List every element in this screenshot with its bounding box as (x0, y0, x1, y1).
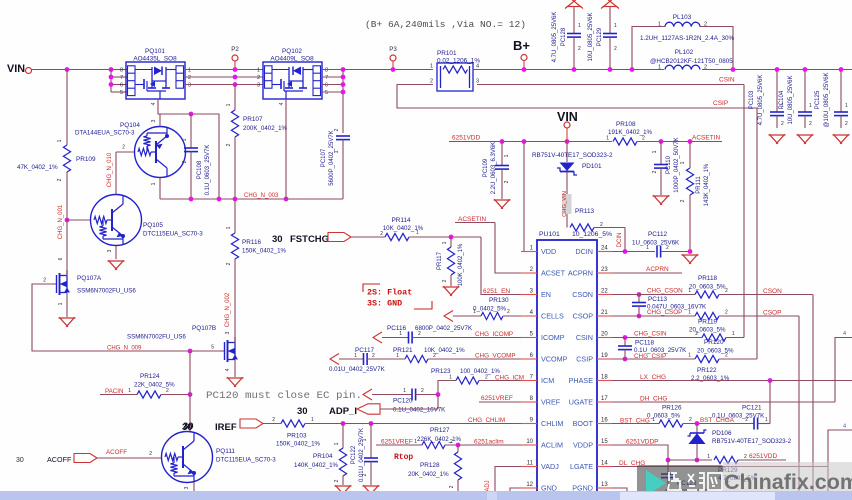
svg-text:PC128: PC128 (561, 27, 567, 46)
svg-text:150K_0402_1%: 150K_0402_1% (276, 441, 321, 448)
transistor PQ105 DTC115EUA_SC70-3 (91, 195, 142, 246)
svg-text:PC118: PC118 (635, 340, 655, 347)
svg-text:8: 8 (325, 68, 328, 74)
svg-text:2: 2 (689, 417, 692, 423)
svg-text:PL102: PL102 (675, 49, 694, 56)
svg-text:1: 1 (809, 103, 812, 109)
wire PR101 pin3 CSIN (477, 84, 744, 86)
svg-text:5: 5 (325, 90, 328, 96)
svg-text:20_0603_5%: 20_0603_5% (689, 284, 726, 291)
capacitor PC110 1000P_0402_50V7K (660, 142, 662, 165)
svg-text:1: 1 (128, 388, 131, 394)
svg-text:CSIN: CSIN (719, 77, 735, 84)
svg-text:1: 1 (226, 103, 232, 106)
svg-text:1: 1 (688, 353, 691, 359)
svg-text:CHG_VIN: CHG_VIN (562, 191, 568, 217)
transistor PQ101 AO4435L_SO8 (126, 62, 185, 99)
wire PQ101 left pin bus (110, 70, 112, 93)
svg-text:PC122: PC122 (351, 445, 357, 464)
svg-text:PQ102: PQ102 (282, 48, 302, 55)
wire CHG_N_001 to PQ107A drain (66, 220, 68, 256)
svg-text:6800P_0402_25V7K: 6800P_0402_25V7K (415, 325, 473, 332)
svg-text:1: 1 (151, 182, 157, 185)
svg-text:UGATE: UGATE (569, 397, 593, 406)
diode PD106 RB751V-40TE17_SOD323-2 (696, 424, 698, 461)
svg-text:DTC115EUA_SC70-3: DTC115EUA_SC70-3 (216, 457, 276, 464)
svg-text:FSTCHG: FSTCHG (290, 234, 329, 245)
svg-text:23: 23 (601, 267, 608, 273)
wire ACOFF to PQ111 base (97, 457, 161, 459)
svg-text:LGATE: LGATE (570, 462, 593, 471)
svg-text:5: 5 (211, 345, 214, 351)
capacitor PC118 0.1U_0603_25V7K (624, 338, 626, 347)
svg-text:2S: Float: 2S: Float (367, 288, 412, 298)
svg-text:CHG_N_009: CHG_N_009 (107, 346, 142, 352)
svg-text:1: 1 (57, 139, 63, 142)
svg-text:ACSET: ACSET (541, 268, 566, 277)
row CSON: PR118 20_0603_5% (637, 292, 642, 297)
svg-text:2: 2 (666, 245, 669, 251)
capacitor PC109 2.2U_0603_6.3V6K (501, 142, 503, 166)
svg-text:VIN: VIN (7, 63, 25, 75)
svg-text:CHG_CSOP: CHG_CSOP (647, 309, 682, 316)
wire FSTCHG to PR114 (351, 236, 385, 238)
svg-text:CHG_N_010: CHG_N_010 (107, 152, 113, 187)
wire GND pin12 (510, 488, 521, 491)
svg-text:PR130: PR130 (489, 297, 509, 304)
svg-text:30: 30 (16, 457, 24, 464)
svg-text:BOOT: BOOT (573, 419, 594, 428)
svg-text:2: 2 (380, 231, 383, 237)
transistor PQ107B SSM6N7002FU_US6 (220, 350, 225, 352)
svg-text:100K_0402_1%: 100K_0402_1% (458, 243, 464, 286)
capacitor PC125 @10U_0805_25V6K (840, 70, 842, 113)
svg-text:CHG_ICM: CHG_ICM (495, 375, 524, 382)
capacitor PC113 0.047U_0603_16V7K (638, 295, 640, 303)
svg-text:PC116: PC116 (387, 325, 407, 332)
svg-text:4: 4 (151, 102, 157, 105)
svg-text:10K_0402_1%: 10K_0402_1% (424, 347, 465, 354)
svg-text:2: 2 (57, 178, 63, 181)
svg-text:22K_0402_5%: 22K_0402_5% (134, 382, 175, 389)
svg-text:CSIN: CSIN (576, 333, 593, 342)
wire CSOP down right (798, 316, 800, 500)
svg-text:1: 1 (414, 439, 417, 445)
svg-text:PC108: PC108 (197, 160, 203, 179)
svg-text:2: 2 (485, 375, 488, 381)
svg-text:@10U_0805_25V6K: @10U_0805_25V6K (824, 72, 830, 127)
svg-text:1: 1 (354, 353, 357, 359)
svg-text:6251VREF: 6251VREF (481, 395, 513, 402)
wire PQ111 emitter down (193, 482, 195, 491)
wire PQ104 base to PQ105 collector CHG_N_010 (116, 151, 134, 153)
svg-text:PR101: PR101 (437, 50, 457, 57)
wire FSTCHG row down to EN pin (481, 237, 537, 295)
svg-text:1: 1 (449, 375, 452, 381)
wire LX to PC121 (769, 381, 771, 424)
svg-text:1: 1 (606, 136, 609, 142)
svg-text:6: 6 (58, 257, 64, 260)
row PGND (612, 488, 627, 491)
svg-text:GND: GND (541, 483, 557, 492)
svg-text:17: 17 (601, 396, 608, 402)
capacitor PC123 4.7U_0805_6.3V6K (661, 473, 675, 475)
svg-text:14: 14 (601, 461, 608, 467)
svg-text:2: 2 (418, 331, 421, 337)
svg-text:PR118: PR118 (698, 275, 718, 282)
svg-text:2: 2 (362, 473, 368, 476)
svg-text:B+: B+ (513, 38, 530, 53)
svg-text:2: 2 (680, 199, 686, 202)
svg-text:CHG_ICOMP: CHG_ICOMP (475, 331, 513, 338)
capacitor PC128 4.7U_0805_25V6K (565, 0, 576, 8)
wire PQ107A drain (66, 256, 68, 276)
svg-text:PR111: PR111 (696, 176, 702, 194)
transistor PQ111 DTC115EUA_SC70-3 (162, 432, 213, 483)
svg-text:PR127: PR127 (430, 427, 450, 434)
wire DH to FET gate stub (835, 338, 852, 403)
svg-text:PGND: PGND (572, 483, 593, 492)
svg-text:2: 2 (122, 145, 125, 151)
wire PQ107B drain (234, 336, 236, 343)
svg-text:4.7U_0805_25V6K: 4.7U_0805_25V6K (758, 75, 764, 126)
svg-text:PC120: PC120 (393, 398, 413, 405)
svg-text:2: 2 (642, 136, 645, 142)
wire ADP_I stub (380, 408, 438, 410)
wire PQ104 emitter down (159, 178, 161, 199)
svg-text:PR108: PR108 (616, 121, 636, 128)
svg-text:PR113: PR113 (575, 208, 595, 215)
resistor PR129 4.7_0603_5% (667, 460, 669, 474)
svg-text:CSIP: CSIP (576, 354, 593, 363)
wire PQ107A source to ground (66, 293, 68, 317)
svg-text:CSOP: CSOP (763, 310, 781, 317)
svg-text:2: 2 (334, 128, 340, 131)
svg-text:BST_CHGA: BST_CHGA (700, 417, 735, 424)
svg-text:3S: GND: 3S: GND (367, 299, 402, 309)
svg-text:RB751V-40TE17_SOD323-2: RB751V-40TE17_SOD323-2 (712, 438, 792, 445)
wire CSIN vertical (743, 85, 745, 338)
resistor PR111 143K_0402_1% (689, 142, 691, 169)
wire PQ101 to PQ102 rows 1-2-3 (185, 69, 263, 71)
svg-text:10_1206_5%: 10_1206_5% (572, 231, 612, 238)
svg-text:CHLIM: CHLIM (541, 419, 563, 428)
svg-text:PD101: PD101 (582, 163, 602, 170)
svg-text:SSM6N7002FU_US6: SSM6N7002FU_US6 (127, 334, 186, 341)
svg-text:IREF: IREF (215, 422, 237, 433)
svg-text:20: 20 (601, 332, 608, 338)
svg-text:1: 1 (58, 302, 64, 305)
svg-text:PR104: PR104 (313, 453, 333, 460)
capacitor PC129 10U_0805_25V6K (601, 0, 612, 8)
svg-text:2: 2 (504, 180, 510, 183)
svg-text:2: 2 (704, 22, 707, 28)
svg-text:ACOFF: ACOFF (47, 455, 72, 464)
svg-text:2: 2 (725, 288, 728, 294)
svg-text:2: 2 (578, 46, 581, 52)
svg-text:2: 2 (226, 262, 232, 265)
svg-text:Rtop: Rtop (394, 453, 413, 462)
svg-text:ACPRN: ACPRN (646, 266, 669, 273)
svg-text:PC113: PC113 (648, 296, 668, 303)
svg-text:5: 5 (120, 90, 123, 96)
svg-text:VDDP: VDDP (573, 440, 593, 449)
svg-text:2: 2 (433, 353, 436, 359)
svg-text:13: 13 (601, 482, 608, 488)
svg-text:24: 24 (601, 246, 608, 252)
svg-text:1: 1 (652, 417, 655, 423)
svg-text:PQ111: PQ111 (216, 448, 235, 455)
svg-text:2: 2 (695, 331, 698, 337)
svg-text:2: 2 (725, 310, 728, 316)
wire VIN to PQ101 (31, 69, 126, 71)
svg-text:20_0603_5%: 20_0603_5% (697, 348, 734, 355)
svg-text:DCIN: DCIN (575, 247, 593, 256)
svg-text:4: 4 (225, 368, 231, 371)
svg-text:PL103: PL103 (673, 14, 692, 21)
svg-text:1: 1 (396, 353, 399, 359)
svg-text:PC110: PC110 (666, 155, 672, 174)
svg-text:22: 22 (601, 289, 608, 295)
svg-text:150K_0402_1%: 150K_0402_1% (242, 248, 287, 255)
svg-text:6: 6 (325, 83, 328, 89)
svg-text:ADJ: ADJ (485, 480, 491, 491)
svg-text:2: 2 (745, 417, 748, 423)
svg-text:PR116: PR116 (242, 239, 262, 246)
svg-text:PD106: PD106 (712, 430, 732, 437)
svg-text:PR114: PR114 (391, 217, 411, 224)
inductor PL103 1.2UH_1127AS-1R2N_2.4A_30% (632, 27, 665, 70)
svg-text:AO4409L_SO8: AO4409L_SO8 (270, 56, 314, 63)
capacitor PC104 10U_0805_25V6K (804, 70, 806, 113)
wire DL to FET gate stub (828, 430, 852, 491)
svg-text:1: 1 (416, 230, 419, 236)
svg-text:ACOFF: ACOFF (106, 449, 127, 456)
svg-text:1: 1 (188, 68, 191, 74)
svg-text:ACLIM: ACLIM (541, 440, 563, 449)
svg-text:1: 1 (732, 331, 735, 337)
svg-text:1: 1 (334, 150, 340, 153)
row CSIN: PR120 20_0603_5% (623, 335, 628, 340)
wire PR113 down to DCIN (624, 228, 626, 252)
svg-text:0.01U_0402_25V7K: 0.01U_0402_25V7K (329, 366, 386, 373)
svg-text:1: 1 (334, 442, 340, 445)
svg-text:RB751V-40TE17_SOD323-2: RB751V-40TE17_SOD323-2 (532, 152, 613, 159)
svg-text:PQ104: PQ104 (120, 122, 140, 129)
svg-text:4: 4 (843, 331, 846, 337)
svg-text:1: 1 (614, 23, 617, 29)
svg-text:5600P_0402_25V7K: 5600P_0402_25V7K (329, 130, 335, 185)
svg-text:143K_0402_1%: 143K_0402_1% (704, 163, 710, 206)
wire PQ107A gate to CHG_N_009 (32, 284, 223, 351)
svg-text:191K_0402_1%: 191K_0402_1% (608, 129, 653, 136)
svg-text:1: 1 (707, 454, 710, 460)
resistor PR116 150K_0402_1% (234, 199, 236, 233)
resistor PR109 47K_0402_1% (66, 70, 68, 146)
wire PQ105 emitter to ground (115, 246, 117, 259)
svg-text:PR123: PR123 (431, 368, 451, 375)
svg-text:PR122: PR122 (697, 367, 717, 374)
svg-text:2: 2 (372, 353, 375, 359)
svg-text:2: 2 (182, 160, 188, 163)
svg-text:2: 2 (614, 46, 617, 52)
svg-text:0_0402_5%: 0_0402_5% (473, 306, 507, 313)
svg-text:18: 18 (601, 375, 608, 381)
svg-text:1: 1 (442, 241, 448, 244)
svg-text:P2: P2 (231, 46, 239, 53)
svg-text:2: 2 (781, 121, 784, 127)
wire CHG_N_009 junction down to PQ111 (189, 351, 191, 431)
svg-text:@HCB2012KF-121T50_0805: @HCB2012KF-121T50_0805 (650, 58, 733, 65)
wire PD101 to PR113 CHG_VIN (566, 172, 568, 228)
svg-text:1: 1 (578, 23, 581, 29)
svg-text:10U_0805_25V6K: 10U_0805_25V6K (788, 75, 794, 124)
svg-text:2: 2 (257, 75, 260, 81)
wire CSON down right (812, 295, 814, 500)
wire P2 column down to PR107 (234, 85, 236, 111)
resistor PR107 200K_0402_1% (231, 110, 238, 137)
wire 6251VDD down to VDD pin (524, 142, 537, 252)
note 2S float 3S gnd (363, 284, 432, 309)
bottom scrollbar (0, 491, 852, 500)
svg-text:CHG_VCOMP: CHG_VCOMP (475, 353, 516, 360)
svg-text:30: 30 (182, 422, 193, 433)
svg-text:6251_EN: 6251_EN (483, 288, 510, 295)
svg-text:PR124: PR124 (140, 373, 160, 380)
svg-text:PC103: PC103 (749, 90, 755, 109)
svg-text:Chinafix.com: Chinafix.com (724, 470, 852, 494)
svg-text:4: 4 (279, 102, 285, 105)
svg-text:PHASE: PHASE (569, 376, 594, 385)
svg-text:30: 30 (272, 234, 283, 245)
svg-text:CHG_N_001: CHG_N_001 (58, 204, 64, 239)
transistor PQ107A SSM6N7002FU_US6 (52, 283, 57, 285)
svg-text:AO4435L_SO8: AO4435L_SO8 (133, 56, 177, 63)
svg-text:PC109: PC109 (483, 158, 489, 177)
svg-text:PQ105: PQ105 (143, 222, 163, 229)
capacitor PC103 4.7U_0805_25V6K (776, 70, 778, 113)
svg-text:1: 1 (257, 68, 260, 74)
svg-text:PC125: PC125 (815, 90, 821, 109)
svg-text:PQ101: PQ101 (145, 48, 165, 55)
svg-text:ICM: ICM (541, 376, 554, 385)
svg-text:EN: EN (541, 290, 551, 299)
svg-text:2: 2 (442, 279, 448, 282)
wire PR101 pin2 loop to CSIP (397, 85, 757, 109)
svg-text:2: 2 (652, 170, 658, 173)
svg-text:21: 21 (601, 310, 608, 316)
svg-text:CELLS: CELLS (541, 311, 564, 320)
svg-text:2: 2 (449, 485, 455, 488)
svg-text:3: 3 (225, 331, 231, 334)
svg-text:4: 4 (476, 64, 479, 70)
svg-text:11: 11 (527, 461, 534, 467)
svg-text:CHG_CSON: CHG_CSON (647, 288, 683, 295)
svg-text:1.2UH_1127AS-1R2N_2.4A_30%: 1.2UH_1127AS-1R2N_2.4A_30% (640, 35, 734, 42)
svg-text:1: 1 (646, 245, 649, 251)
svg-text:1: 1 (652, 150, 658, 153)
svg-text:2: 2 (507, 309, 510, 315)
svg-text:PC121: PC121 (742, 405, 762, 412)
svg-text:SSM6N7002FU_US6: SSM6N7002FU_US6 (77, 288, 136, 295)
svg-text:12: 12 (526, 482, 533, 488)
svg-text:2: 2 (149, 451, 152, 457)
svg-text:PC120 must close EC pin.: PC120 must close EC pin. (206, 390, 362, 401)
svg-text:1: 1 (182, 138, 188, 141)
svg-text:PC107: PC107 (321, 148, 327, 167)
svg-text:2: 2 (226, 143, 232, 146)
svg-text:2: 2 (272, 417, 275, 423)
svg-text:DTA144EUA_SC70-3: DTA144EUA_SC70-3 (75, 130, 135, 137)
svg-text:10: 10 (526, 439, 533, 445)
svg-text:2: 2 (43, 278, 46, 284)
wire PQ102 right pin bus (322, 69, 343, 71)
svg-text:PR128: PR128 (420, 462, 440, 469)
svg-text:CHG_N_002: CHG_N_002 (225, 292, 231, 327)
svg-text:6251VDD: 6251VDD (749, 453, 777, 460)
svg-text:1: 1 (473, 309, 476, 315)
svg-text:VDD: VDD (541, 247, 556, 256)
svg-text:1: 1 (226, 226, 232, 229)
svg-text:0.1U_0603_25V7K: 0.1U_0603_25V7K (205, 145, 211, 196)
capacitor PC122 0.01U_0402_25V7K (370, 424, 372, 459)
svg-text:4: 4 (843, 424, 846, 430)
svg-text:2: 2 (450, 439, 453, 445)
svg-text:1: 1 (658, 65, 661, 71)
svg-text:PR109: PR109 (76, 156, 96, 163)
svg-text:2: 2 (166, 388, 169, 394)
svg-text:P3: P3 (389, 46, 397, 53)
svg-text:VREF: VREF (541, 397, 561, 406)
svg-text:PQ107A: PQ107A (77, 275, 102, 282)
svg-text:3: 3 (188, 83, 191, 89)
svg-text:8: 8 (120, 68, 123, 74)
svg-text:10U_0805_25V6K: 10U_0805_25V6K (588, 12, 594, 61)
svg-text:3: 3 (184, 486, 190, 489)
svg-text:CSON: CSON (763, 288, 782, 295)
wire CSIP vertical (756, 108, 758, 359)
svg-text:CHG_N_003: CHG_N_003 (244, 193, 279, 199)
svg-text:PQ107B: PQ107B (192, 325, 216, 332)
wire DCIN node + capacitor PC112 1U_0603_25V6K (623, 249, 628, 254)
svg-text:ICOMP: ICOMP (541, 333, 565, 342)
svg-text:3: 3 (257, 83, 260, 89)
svg-text:2.2U_0603_6.3V6K: 2.2U_0603_6.3V6K (491, 142, 497, 194)
svg-text:CSON: CSON (572, 290, 593, 299)
wire main rail B+ to right edge (473, 69, 852, 71)
svg-text:7: 7 (325, 75, 328, 81)
svg-text:1: 1 (311, 417, 314, 423)
svg-text:VADJ: VADJ (541, 462, 559, 471)
resistor PR104 140K_0402_1% (342, 424, 344, 449)
svg-text:PR107: PR107 (243, 116, 263, 123)
svg-text:ACSETIN: ACSETIN (692, 135, 720, 142)
svg-text:6251aclim: 6251aclim (474, 439, 504, 446)
svg-text:2: 2 (188, 75, 191, 81)
svg-text:2: 2 (704, 65, 707, 71)
svg-text:1: 1 (504, 154, 510, 157)
svg-text:2: 2 (809, 121, 812, 127)
svg-text:CSIP: CSIP (713, 100, 728, 107)
wire PQ104 pin3 to node (159, 114, 161, 126)
svg-text:4.7U_0805_25V6K: 4.7U_0805_25V6K (552, 12, 558, 63)
svg-text:30: 30 (297, 406, 308, 417)
svg-text:PC104: PC104 (779, 90, 785, 109)
wire main rail to PR101 (343, 69, 433, 71)
wire 6251VDD rail (449, 141, 612, 143)
svg-text:1: 1 (399, 331, 402, 337)
svg-text:16: 16 (601, 418, 608, 424)
